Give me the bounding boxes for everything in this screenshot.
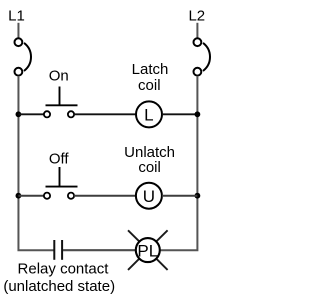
junction dot rung2 right [195,193,201,199]
svg-text:Relay contact: Relay contact [18,260,110,277]
wire rung2 right [162,195,197,197]
wire rung3 middle [63,249,136,251]
relay contact (NO, capacitor-style plates) [54,240,62,260]
svg-text:coil: coil [138,77,161,94]
pilot light PL [128,230,168,270]
wire rung1 right [162,113,197,115]
pushbutton Off (NO) [44,167,78,199]
svg-text:Latch: Latch [132,61,169,78]
coil L (latch coil) [136,101,162,127]
wire rung2 middle [74,195,136,197]
svg-text:L2: L2 [188,8,205,25]
svg-text:(unlatched state): (unlatched state) [3,278,115,295]
svg-text:Off: Off [49,151,70,168]
disconnect switch on L1 rail [15,38,32,75]
junction dot rung1 right [195,111,201,117]
junction dot rung2 left [16,193,22,199]
disconnect switch on L2 rail [194,38,211,75]
svg-text:U: U [143,187,155,206]
pushbutton On (NO) [44,87,78,118]
wire rung2 left [18,195,44,197]
wire rung1 left [18,113,44,115]
svg-text:PL: PL [137,241,158,260]
svg-text:L1: L1 [8,8,25,25]
junction dot rung1 left [16,111,22,117]
wire L1 top lead [17,23,19,39]
wire L2 top lead [196,23,198,39]
coil U (unlatch coil) [136,183,162,209]
svg-text:L: L [144,106,153,125]
wire rung1 middle [74,113,136,115]
svg-text:On: On [49,68,69,85]
wire right rail [160,76,198,250]
svg-text:coil: coil [138,159,161,176]
wire left rail [18,76,53,250]
